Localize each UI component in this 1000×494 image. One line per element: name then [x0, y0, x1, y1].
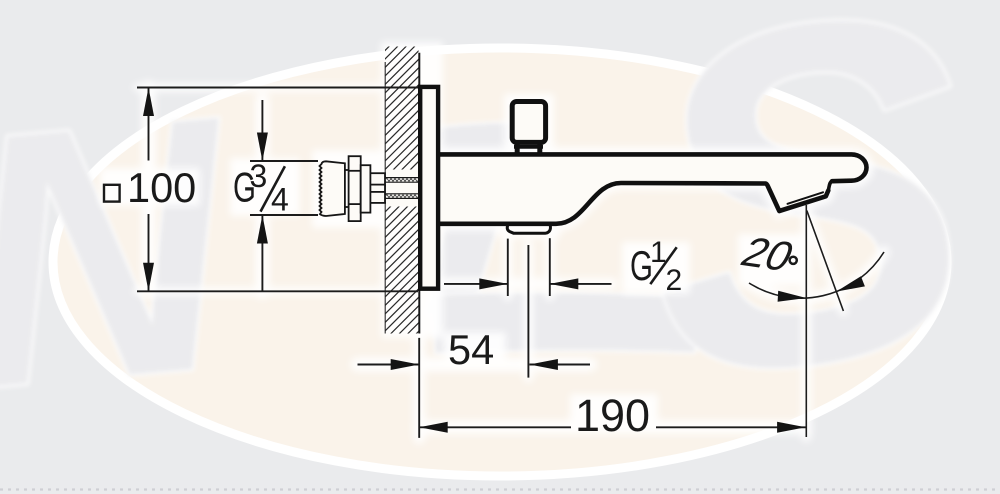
- svg-text:2: 2: [666, 264, 683, 297]
- svg-text:100: 100: [127, 164, 196, 211]
- svg-text:54: 54: [448, 326, 494, 373]
- svg-text:3: 3: [250, 158, 268, 194]
- svg-text:190: 190: [575, 390, 650, 441]
